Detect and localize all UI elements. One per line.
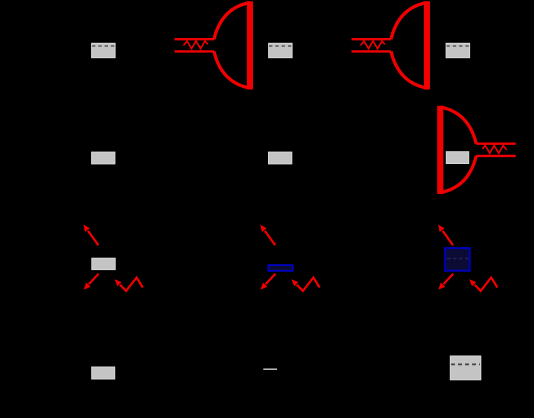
cavity 2 (red horn cavity between col2 and col3)	[352, 1, 431, 89]
levitated box C3 (row3 col3 navy square with dashed line)	[445, 248, 470, 271]
arrows col1 (pump/decay/squiggle)	[83, 225, 142, 291]
level box A3 (row3 col1 gray box)	[92, 258, 115, 269]
mass A4 (row4 col1 gray box)	[92, 367, 115, 379]
mirror C1 (row1 col3 gray box with dashed top)	[446, 43, 470, 57]
mirror B1 (row1 col2 gray box with dashed top)	[269, 43, 293, 57]
membrane B4 (row4 col2 thin gray line)	[263, 368, 277, 370]
mirror A2 (row2 col1 gray box)	[92, 152, 115, 164]
mirror B2 (row2 col2 gray box)	[269, 152, 292, 164]
mirror C2 (row2 col3 gray box inside horn)	[446, 152, 468, 164]
membrane B3 (row3 col2 thin blue bar)	[268, 265, 292, 271]
arrows col2 (pump/decay/squiggle)	[260, 225, 319, 291]
cavity 3 (mirrored red horn cavity at right, row2)	[437, 106, 516, 194]
mirror A1 (row1 col1 gray box with dashed top)	[92, 43, 116, 57]
mass C4 (row4 col3 large gray box with dashed line)	[450, 356, 481, 380]
arrows col3 (pump/decay/squiggle)	[438, 225, 497, 291]
cavity 1 (red horn cavity between col1 and col2)	[175, 1, 254, 89]
